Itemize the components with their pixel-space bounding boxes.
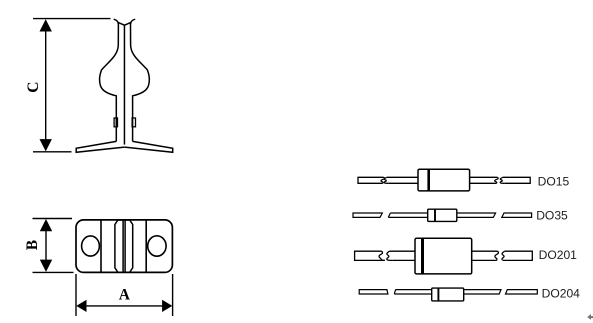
DO15 left lead stub break S [381, 177, 385, 183]
lead crimp tab right [132, 118, 135, 127]
dimension B extension line (bottom) [33, 271, 74, 273]
body outline left (neck, bulb, lower wire) [99, 24, 118, 142]
DO201 left lead stub [355, 251, 385, 260]
cursor artifact bottom-right [587, 314, 593, 320]
dimension B line [45, 221, 47, 270]
DO15 right lead stub [503, 177, 530, 183]
dimension B arrowhead top [40, 219, 52, 231]
dimension A extension line (left) [75, 274, 77, 316]
bent foot right [125, 141, 173, 152]
bent foot left [76, 141, 124, 152]
lead crimp tab left [114, 118, 117, 127]
dimension A line [78, 305, 171, 307]
mounting hole right [148, 236, 166, 256]
DO15 body [418, 169, 470, 191]
component outline: top fold (horns + V peak) [114, 19, 136, 25]
DO15 left lead stub [358, 177, 384, 183]
svg-text:A: A [119, 286, 131, 303]
svg-text:B: B [24, 240, 41, 250]
DO15 left lead inner segment [387, 177, 418, 183]
DO35 right lead inner segment [457, 213, 496, 217]
DO201 left lead inner break S [387, 251, 393, 260]
mounting hole left [82, 236, 100, 256]
left horn [114, 19, 119, 24]
dimension B arrowhead bottom [40, 260, 52, 272]
dimension B extension line (top) [33, 218, 73, 220]
DO15 right lead inner segment [470, 177, 498, 183]
lead pair line left [122, 220, 124, 273]
central lead line [123, 25, 125, 145]
DO201 right lead inner break S [495, 251, 499, 260]
DO35 right lead stub [502, 213, 532, 217]
dimension C line [45, 21, 47, 150]
body (octagon, front view) [115, 220, 133, 272]
svg-text:DO15: DO15 [538, 174, 570, 188]
right horn [131, 19, 136, 24]
DO201 right lead inner segment [472, 251, 498, 260]
dimension C arrowhead bottom [40, 139, 52, 151]
dimension C extension line (bottom) [33, 151, 72, 153]
DO201 left lead stub break S [379, 251, 385, 260]
fold V notch [118, 23, 130, 26]
DO201 right lead stub [503, 251, 533, 260]
svg-text:C: C [25, 82, 42, 93]
DO204 right lead stub [506, 290, 538, 294]
dimension A arrowhead right [162, 300, 172, 312]
DO35 left lead stub [353, 213, 382, 217]
DO204 left lead stub [359, 290, 388, 294]
DO35 cathode band [434, 209, 436, 221]
DO204 left lead inner segment [394, 290, 431, 294]
DO35 body [428, 209, 457, 221]
DO204 cathode band [437, 288, 439, 301]
DO15 right lead inner break S [495, 177, 499, 183]
DO204 right lead inner segment [464, 290, 501, 294]
channel line right [145, 220, 147, 273]
body outline right (neck, bulb, lower wire) [131, 24, 150, 142]
dimension A extension line (right) [172, 274, 174, 316]
mounting plate outline [76, 220, 172, 273]
DO201 left lead inner segment [389, 251, 415, 260]
DO201 body [415, 238, 472, 274]
lead pair line right [124, 220, 126, 273]
DO35 left lead inner segment [388, 213, 427, 217]
svg-text:DO204: DO204 [542, 287, 581, 301]
DO15 cathode band [427, 169, 430, 191]
DO15 left lead inner break S [384, 177, 388, 183]
DO15 right lead stub break S [500, 177, 504, 183]
dimension A arrowhead left [76, 300, 86, 312]
DO204 body [432, 288, 464, 301]
channel line left [100, 220, 102, 273]
DO201 cathode band [421, 238, 424, 274]
svg-text:DO201: DO201 [539, 248, 578, 262]
dimension C arrowhead top [40, 19, 52, 31]
DO201 right lead stub break S [502, 251, 505, 260]
svg-text:DO35: DO35 [536, 209, 568, 223]
dimension C extension line (top) [33, 18, 111, 20]
